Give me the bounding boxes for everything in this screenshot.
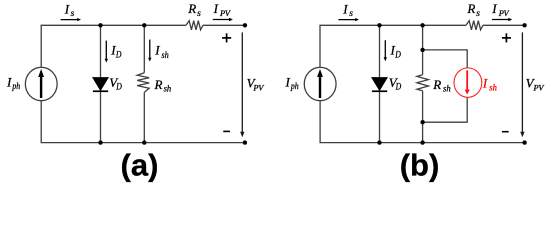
node dot (a) top right terminal — [243, 23, 247, 27]
diode VD (a) — [92, 77, 109, 92]
current arrow ID (a) — [105, 41, 108, 63]
svg-text:D: D — [394, 51, 401, 61]
svg-text:I: I — [213, 1, 219, 16]
svg-text:ph: ph — [290, 82, 299, 92]
current arrow Is (b) — [338, 18, 359, 21]
wire: (b) left wire lower and bottom wire — [320, 101, 524, 143]
node dot (b) top Rsh — [420, 23, 424, 27]
wire: (a) top-left corner and top wire to Rs — [41, 25, 186, 67]
node dot (a) bottom right terminal — [243, 140, 247, 144]
svg-text:I: I — [491, 1, 497, 16]
label minus (a) — [223, 131, 230, 133]
svg-text:PV: PV — [498, 9, 510, 18]
voltage arrow VPV (b) — [520, 32, 524, 137]
svg-text:D: D — [395, 83, 402, 93]
svg-text:I: I — [482, 76, 488, 91]
current arrow Is (a) — [61, 18, 81, 21]
wire: (a) top wire right segment — [203, 24, 245, 26]
current source Ish circle red (b) — [454, 68, 482, 98]
svg-text:I: I — [154, 43, 160, 58]
wire: (a) left wire lower and bottom wire — [41, 101, 245, 143]
svg-text:(a): (a) — [121, 148, 159, 183]
wire: (a) Rsh branch upper — [143, 25, 145, 72]
wire: (b) Rsh branch lower — [422, 91, 424, 143]
wire: (a) diode branch — [100, 25, 102, 142]
svg-text:I: I — [342, 1, 348, 16]
current arrow ID (b) — [384, 40, 387, 61]
node dot (a) bottom Rsh — [142, 140, 146, 144]
svg-text:sh: sh — [489, 84, 497, 94]
current arrow Ish (a) — [148, 40, 151, 62]
resistor Rs (b) — [466, 21, 483, 30]
svg-text:D: D — [115, 51, 122, 61]
node dot (b) loop bottom junction — [420, 120, 424, 124]
diode VD (b) — [371, 77, 388, 92]
current arrow IPV (a) — [213, 18, 233, 21]
current source Iph arrow (b) — [317, 69, 323, 98]
node dot (b) bottom right terminal — [522, 140, 526, 144]
resistor Rsh (b) — [417, 75, 429, 91]
svg-text:sh: sh — [443, 85, 451, 95]
svg-text:PV: PV — [533, 84, 545, 93]
current source Iph circle (b) — [304, 67, 336, 100]
wire: (b) diode branch — [379, 25, 381, 142]
resistor Rs (a) — [186, 21, 203, 30]
svg-text:R: R — [187, 1, 196, 16]
node dot (b) bottom diode — [377, 140, 381, 144]
node dot (b) top right terminal — [522, 23, 526, 27]
svg-text:R: R — [154, 77, 163, 92]
wire: (b) top-left corner and top wire to Rs — [320, 25, 466, 67]
label plus (a) — [222, 33, 231, 42]
svg-text:I: I — [6, 75, 12, 90]
svg-text:sh: sh — [164, 85, 172, 95]
wire: (a) Rsh branch lower — [143, 92, 145, 142]
node dot (b) loop top junction — [420, 48, 424, 52]
node dot (a) top Rsh — [142, 23, 146, 27]
svg-text:PV: PV — [252, 84, 264, 93]
current source Iph circle (a) — [25, 67, 57, 100]
svg-text:R: R — [432, 77, 441, 92]
svg-text:PV: PV — [219, 9, 231, 18]
node dot (a) top diode — [98, 23, 102, 27]
node dot (b) top diode — [377, 23, 381, 27]
svg-text:I: I — [285, 75, 291, 90]
label plus (b) — [502, 33, 511, 42]
current arrow IPV (b) — [492, 18, 512, 21]
wire: (b) Ish loop top — [423, 50, 468, 68]
svg-text:D: D — [115, 83, 122, 93]
current source Ish red arrow (b) — [465, 70, 470, 94]
svg-text:I: I — [64, 1, 70, 16]
svg-text:s: s — [476, 9, 480, 19]
voltage arrow VPV (a) — [240, 32, 244, 137]
node dot (b) bottom Rsh — [420, 140, 424, 144]
wire: (b) top wire right segment — [483, 24, 525, 26]
wire: (b) Ish loop bottom — [423, 97, 468, 122]
current source Iph arrow (a) — [38, 69, 44, 98]
svg-text:R: R — [466, 1, 475, 16]
svg-text:(b): (b) — [400, 148, 440, 183]
wire: (b) Rsh branch upper — [422, 25, 424, 75]
node dot (a) bottom diode — [98, 140, 102, 144]
resistor Rsh (a) — [137, 73, 149, 93]
svg-text:s: s — [71, 9, 75, 19]
svg-text:sh: sh — [161, 51, 169, 61]
svg-text:s: s — [197, 9, 201, 19]
svg-text:s: s — [349, 9, 353, 19]
label minus (b) — [502, 131, 509, 133]
svg-text:ph: ph — [12, 82, 21, 92]
